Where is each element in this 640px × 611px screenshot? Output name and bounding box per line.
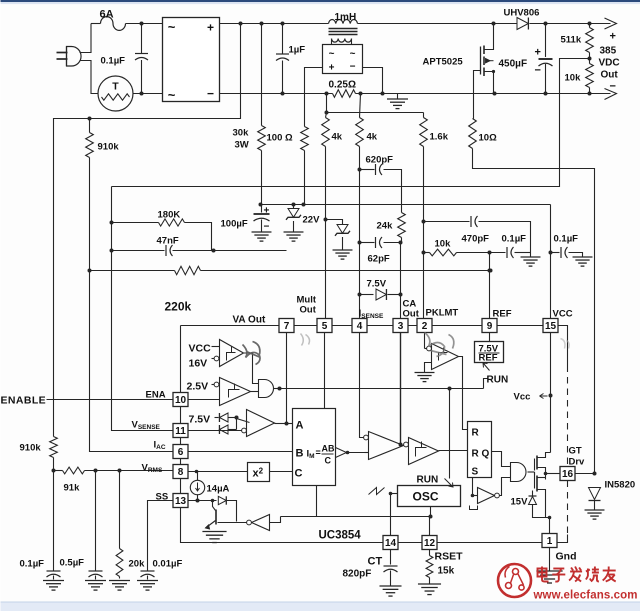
svg-text:3W: 3W — [235, 140, 249, 151]
svg-text:15: 15 — [545, 321, 557, 332]
svg-text:Out: Out — [601, 70, 619, 81]
svg-text:10Ω: 10Ω — [479, 133, 498, 144]
svg-text:1: 1 — [547, 536, 553, 547]
svg-text:+: + — [264, 206, 270, 217]
svg-text:24k: 24k — [377, 221, 394, 232]
svg-text:UHV806: UHV806 — [504, 8, 540, 19]
svg-text:A: A — [296, 420, 304, 432]
svg-text:1.6k: 1.6k — [430, 132, 449, 143]
svg-text:−: − — [207, 87, 214, 101]
svg-text:OSC: OSC — [413, 490, 439, 504]
svg-text:S: S — [472, 467, 479, 478]
svg-text:PKLMT: PKLMT — [426, 308, 459, 319]
svg-text:−: − — [610, 81, 616, 93]
svg-text:4k: 4k — [332, 132, 343, 143]
svg-text:UC3854: UC3854 — [319, 530, 362, 542]
svg-text:5: 5 — [322, 321, 328, 332]
svg-text:+: + — [610, 31, 616, 43]
svg-text:15k: 15k — [438, 566, 455, 577]
svg-text:511k: 511k — [561, 35, 582, 46]
svg-text:~: ~ — [168, 20, 176, 35]
svg-text:0.1µF: 0.1µF — [20, 559, 45, 570]
svg-text:=: = — [316, 448, 321, 458]
svg-text:0.1µF: 0.1µF — [502, 234, 527, 245]
svg-text:12: 12 — [424, 538, 436, 549]
svg-text:385: 385 — [600, 46, 617, 57]
svg-text:910k: 910k — [20, 443, 42, 454]
svg-text:10: 10 — [175, 395, 187, 406]
svg-text:APT5025: APT5025 — [423, 57, 464, 68]
svg-text:7: 7 — [284, 321, 290, 332]
svg-text:620pF: 620pF — [366, 155, 394, 166]
svg-text:8: 8 — [178, 467, 184, 478]
svg-text:470pF: 470pF — [462, 234, 490, 245]
svg-text:VDC: VDC — [599, 58, 620, 69]
svg-text:0.01µF: 0.01µF — [153, 559, 183, 570]
svg-text:C: C — [325, 456, 332, 466]
svg-text:Gnd: Gnd — [556, 551, 577, 563]
svg-text:6: 6 — [178, 447, 184, 458]
svg-text:AB: AB — [322, 444, 335, 454]
svg-text:C: C — [295, 468, 303, 480]
svg-text:ENA: ENA — [146, 390, 166, 401]
svg-text:16V: 16V — [189, 358, 208, 370]
svg-text:−: − — [535, 65, 541, 77]
svg-text:91k: 91k — [64, 483, 81, 494]
svg-text:B: B — [296, 448, 304, 460]
svg-text:6A: 6A — [100, 9, 114, 21]
svg-text:Vcc: Vcc — [514, 392, 531, 403]
svg-text:1mH: 1mH — [335, 12, 357, 23]
svg-text:REF: REF — [479, 353, 498, 364]
svg-text:62pF: 62pF — [368, 254, 390, 265]
svg-text:2: 2 — [422, 321, 428, 332]
svg-text:+: + — [329, 63, 335, 74]
svg-text:0.5µF: 0.5µF — [60, 558, 85, 569]
svg-text:VA Out: VA Out — [233, 315, 266, 326]
svg-text:www.elecfans.com: www.elecfans.com — [533, 590, 638, 602]
svg-text:4k: 4k — [367, 132, 378, 143]
svg-text:Out: Out — [300, 305, 317, 316]
svg-text:~: ~ — [329, 49, 335, 60]
svg-text:~: ~ — [168, 88, 176, 103]
svg-text:14: 14 — [385, 538, 397, 549]
svg-text:T: T — [112, 81, 119, 93]
svg-text:9: 9 — [487, 321, 493, 332]
svg-text:3: 3 — [398, 321, 404, 332]
svg-text:RUN: RUN — [417, 475, 439, 486]
svg-text:SS: SS — [156, 492, 169, 503]
svg-text:~: ~ — [350, 49, 356, 60]
svg-text:−: − — [264, 222, 270, 233]
svg-text:20k: 20k — [129, 559, 146, 570]
svg-text:ENABLE: ENABLE — [1, 395, 47, 407]
svg-text:7.5V: 7.5V — [367, 279, 387, 290]
svg-text:VCC: VCC — [189, 343, 212, 355]
svg-text:−: − — [350, 62, 356, 73]
svg-text:14µA: 14µA — [207, 484, 230, 495]
svg-text:30k: 30k — [233, 128, 250, 139]
svg-text:+: + — [207, 21, 214, 35]
svg-text:0.1µF: 0.1µF — [554, 234, 579, 245]
svg-text:Drv: Drv — [569, 457, 586, 468]
svg-text:11: 11 — [175, 426, 186, 437]
svg-text:100µF: 100µF — [221, 219, 248, 230]
svg-text:RUN: RUN — [487, 375, 509, 386]
svg-text:0.25Ω: 0.25Ω — [329, 80, 356, 91]
svg-text:7.5V: 7.5V — [189, 414, 211, 426]
svg-text:22V: 22V — [303, 215, 321, 226]
svg-text:RSET: RSET — [435, 551, 464, 563]
svg-text:Q: Q — [482, 449, 490, 460]
svg-text:R: R — [472, 449, 480, 460]
svg-text:15V: 15V — [511, 497, 529, 508]
svg-text:820pF: 820pF — [343, 569, 372, 580]
svg-text:0.1µF: 0.1µF — [101, 56, 126, 67]
svg-text:220k: 220k — [165, 300, 192, 314]
svg-text:R: R — [472, 428, 480, 439]
svg-text:IN5820: IN5820 — [605, 480, 636, 491]
svg-text:47nF: 47nF — [157, 236, 179, 247]
svg-text:2.5V: 2.5V — [187, 381, 209, 393]
svg-text:13: 13 — [175, 496, 187, 507]
svg-text:CT: CT — [368, 556, 383, 568]
svg-text:4: 4 — [357, 321, 363, 332]
svg-text:10k: 10k — [565, 73, 582, 84]
svg-text:100 Ω: 100 Ω — [267, 133, 293, 144]
svg-text:910k: 910k — [98, 142, 120, 153]
svg-text:16: 16 — [562, 469, 574, 480]
svg-text:450µF: 450µF — [499, 59, 528, 70]
svg-text:180K: 180K — [158, 210, 181, 221]
svg-text:+: + — [535, 47, 541, 59]
svg-text:10k: 10k — [435, 239, 452, 250]
svg-text:GT: GT — [569, 446, 582, 457]
svg-text:1µF: 1µF — [289, 45, 306, 56]
